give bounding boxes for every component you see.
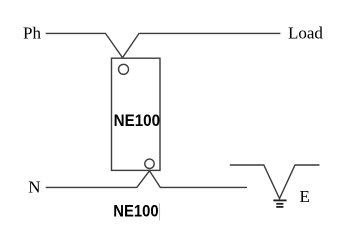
svg-text:E: E [300,187,310,206]
svg-text:Load: Load [288,24,323,43]
svg-text:Ph: Ph [23,24,41,43]
svg-text:NE100: NE100 [113,203,158,221]
svg-text:N: N [28,178,40,197]
svg-text:NE100: NE100 [114,112,161,130]
